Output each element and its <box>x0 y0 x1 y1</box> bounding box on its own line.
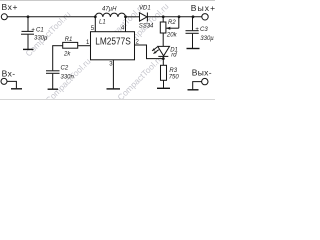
ground (C1) <box>23 48 34 50</box>
node L1 right / pin4 <box>124 15 127 18</box>
svg-text:Вх+: Вх+ <box>2 2 19 12</box>
border line bottom <box>0 99 215 101</box>
svg-text:47µH: 47µH <box>102 7 117 13</box>
svg-text:LM2577S: LM2577S <box>95 37 131 48</box>
ground (Out-) <box>188 89 199 91</box>
svg-text:330µ: 330µ <box>200 36 214 42</box>
svg-text:Вых-: Вых- <box>192 68 212 78</box>
wire Bx- to ground <box>7 81 16 88</box>
wire pin 4 <box>121 17 126 32</box>
ground (C2) <box>48 88 58 90</box>
wire pin 1 to R1 <box>78 45 91 47</box>
terminal Bx+ <box>1 2 18 20</box>
chip U1 LM2577S <box>91 32 135 60</box>
node R2 top <box>162 15 165 18</box>
watermark CompactTool.ru (top right) <box>121 1 170 50</box>
wire LED to R3 <box>162 56 164 65</box>
svg-text:Вых+: Вых+ <box>191 3 215 13</box>
ground (pin 3) <box>107 88 121 90</box>
capacitor C2 330n <box>46 66 75 89</box>
svg-text:750: 750 <box>169 75 180 81</box>
watermark CompactTool.ru (upper left) <box>23 9 72 58</box>
border line top <box>0 0 215 2</box>
svg-text:+ C3: + C3 <box>195 27 208 33</box>
inductor L1 47uH <box>95 7 125 26</box>
svg-text:Вх-: Вх- <box>2 68 16 78</box>
capacitor C3 330u <box>186 17 215 48</box>
svg-text:2k: 2k <box>63 51 71 57</box>
svg-text:5: 5 <box>91 26 95 32</box>
svg-text:330n: 330n <box>61 75 75 81</box>
wire pin 2 to feedback node <box>135 45 164 59</box>
wire input rail (Bx+ to L1 left node) <box>7 16 95 18</box>
terminal Bx- <box>1 68 15 84</box>
trimmer R2 20k <box>160 17 179 47</box>
wire R1 to C2 <box>52 45 54 70</box>
terminal Out+ <box>191 3 216 20</box>
svg-text:R3: R3 <box>169 68 177 74</box>
LED D1 rd <box>152 46 178 58</box>
wire pin 5 <box>91 17 96 32</box>
wire L1 right node to diode <box>126 16 140 18</box>
wire pin 3 to ground <box>112 60 114 89</box>
capacitor C1 <box>21 17 48 49</box>
resistor R3 750 <box>161 65 180 88</box>
ground (R3) <box>157 87 170 89</box>
ground (Bx-) <box>11 88 22 90</box>
node C3 top <box>192 15 195 18</box>
svg-text:VD1: VD1 <box>139 6 151 12</box>
svg-text:SS34: SS34 <box>139 24 154 30</box>
svg-text:20k: 20k <box>166 32 178 38</box>
wire output rail (diode to Out+ terminal) <box>147 16 201 18</box>
svg-text:C2: C2 <box>61 66 69 72</box>
resistor R1 2k <box>53 37 78 57</box>
diode VD1 SS34 <box>139 6 154 30</box>
watermark CompactTool.ru (bottom left) <box>43 56 92 105</box>
svg-text:R2: R2 <box>168 20 176 26</box>
node L1 left / pin5 <box>94 15 97 18</box>
node R2 wiper top <box>178 15 181 18</box>
watermark CompactTool.ru (chip area) <box>97 1 146 50</box>
watermark CompactTool.ru (bottom middle) <box>115 53 164 102</box>
svg-text:L1: L1 <box>99 20 106 26</box>
svg-text:R1: R1 <box>65 37 73 43</box>
svg-text:+ C1: + C1 <box>31 28 43 34</box>
node C1 top <box>27 15 30 18</box>
svg-text:3: 3 <box>109 62 113 68</box>
svg-text:rd: rd <box>171 52 177 58</box>
node feedback (LED cathode / R3 / pin2) <box>162 57 165 60</box>
wire Out- to ground <box>193 82 202 90</box>
terminal Out- <box>192 68 212 85</box>
ground (C3) <box>187 48 200 50</box>
svg-text:330µ: 330µ <box>34 36 48 42</box>
